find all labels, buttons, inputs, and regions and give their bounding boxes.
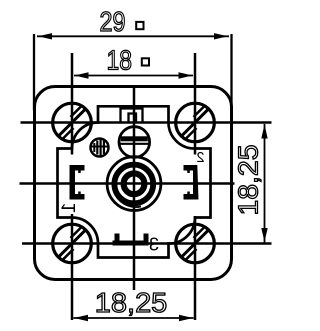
central connector: middle ring <box>114 165 153 204</box>
main horizontal centerline <box>20 182 235 185</box>
svg-text:18,25: 18,25 <box>233 145 264 216</box>
left screw column line top <box>71 53 74 155</box>
dimension 29: extension lines <box>33 34 35 110</box>
dimension 29: dimension line <box>37 35 229 37</box>
dimension 18,25 bottom: right arrow <box>179 315 193 321</box>
svg-text:2: 2 <box>196 150 204 166</box>
centerline horizontal through top screws <box>21 121 272 124</box>
svg-text:29: 29 <box>100 6 126 37</box>
screw bottom-left <box>53 224 92 263</box>
dimension 18,25 bottom: dimension line <box>74 317 194 319</box>
dimension 18,25 right: top arrow <box>261 125 267 139</box>
central connector: inner ring <box>124 173 145 194</box>
contact 3 (bottom) <box>113 234 149 246</box>
main vertical centerline <box>133 87 136 290</box>
small hatched pin circle <box>91 139 109 157</box>
right screw column line top <box>194 53 197 155</box>
screw top-left <box>53 103 92 142</box>
keying block at top center <box>121 109 143 123</box>
dimension 18: right arrow <box>179 72 193 78</box>
centerline horizontal through bottom screws <box>22 242 272 245</box>
left screw column line bottom <box>71 214 74 320</box>
svg-text:18,25: 18,25 <box>95 287 168 318</box>
body outline (rounded square flange) <box>35 87 232 280</box>
center slotted screw <box>119 127 150 158</box>
contact 1 (left) <box>70 165 85 200</box>
dimension 29: right arrow <box>214 33 228 39</box>
svg-text:3: 3 <box>149 235 159 255</box>
dimension 29: square symbol <box>136 22 143 29</box>
inner recess outline with concave screw-boss arcs <box>58 106 211 257</box>
svg-text:18: 18 <box>107 45 133 76</box>
screw top-right <box>176 103 215 142</box>
dimension 18: square symbol <box>142 58 149 65</box>
dimension 18,25 right: dimension line <box>264 124 266 243</box>
right screw column line bottom <box>194 216 197 320</box>
dimension 18,25 bottom: left arrow <box>74 315 88 321</box>
screw bottom-right <box>176 224 215 263</box>
central connector: outer circle <box>107 157 161 211</box>
svg-text:1: 1 <box>59 203 80 214</box>
dimension 18: left arrow <box>75 72 89 78</box>
dimension 18: dimension line <box>74 75 193 77</box>
dimension 18,25 right: bottom arrow <box>261 228 267 242</box>
contact 2 (right) <box>184 165 199 200</box>
dimension 29: left arrow <box>38 33 52 39</box>
